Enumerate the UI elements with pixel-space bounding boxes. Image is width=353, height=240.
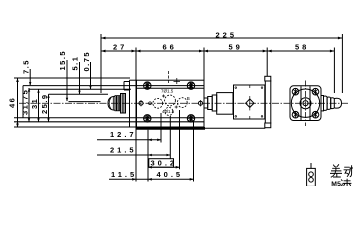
extension line x136 (135, 48, 137, 182)
end view vertical centerline (305, 81, 307, 127)
dimension 46 vertical (14, 78, 21, 128)
end view bolt bottom-right (312, 111, 319, 118)
end cap bottom tab (265, 123, 271, 128)
body bottom thick band (136, 127, 205, 130)
base line under right section (205, 127, 265, 129)
bracket step (124, 80, 130, 127)
dimension 21.5 (97, 154, 170, 157)
bottom ext line x148 (147, 130, 149, 182)
svg-text:40.5: 40.5 (157, 170, 184, 179)
manual knob ribs (115, 96, 121, 111)
label chinese dong (344, 165, 353, 177)
dimension 15.5 vertical (66, 60, 68, 101)
extension line x267.2 (266, 48, 268, 77)
step rect (212, 95, 217, 111)
dimension 7.5 vertical (29, 69, 31, 86)
svg-text:66: 66 (163, 43, 177, 52)
dashed port A (153, 98, 163, 108)
svg-text:15.5: 15.5 (58, 50, 67, 71)
svg-text:4Ø1.5: 4Ø1.5 (162, 109, 175, 114)
svg-text:21.5: 21.5 (110, 145, 137, 154)
top line A (14, 77, 130, 79)
svg-text:27: 27 (113, 43, 127, 52)
port tick 2 (175, 106, 178, 109)
small port dot (149, 102, 152, 105)
label chinese cha (330, 164, 342, 177)
port line C body (137, 87, 205, 89)
port tick 1 (162, 95, 165, 98)
end view small circle (303, 101, 308, 106)
bottom ext line x170.3 (169, 116, 171, 159)
svg-text:7.5: 7.5 (22, 59, 31, 74)
end view chord right (309, 86, 311, 120)
port line C left (29, 88, 131, 90)
end view chord left (300, 86, 302, 120)
dimension 30.2 (148, 159, 180, 169)
bottom ext line x161 (160, 113, 162, 143)
svg-text:59: 59 (229, 43, 243, 52)
dimension chain line 27-66-59-58 (101, 50, 334, 53)
dimension 12.7 (97, 139, 161, 142)
port circle left on centerline (139, 100, 143, 106)
svg-text:11.5: 11.5 (111, 170, 137, 179)
dimension 5.1 vertical (78, 62, 80, 94)
end cap top tab (265, 76, 271, 81)
extension line x342.4 (341, 34, 343, 93)
centerline main horizontal (19, 102, 349, 104)
stub rect (204, 98, 208, 108)
svg-text:5.1: 5.1 (70, 56, 79, 71)
bottom ext line x193.5 (193, 122, 195, 182)
tube top line B (23, 85, 204, 87)
dimension 40.5 and 11.5 line (109, 178, 194, 181)
dimension 25.9 vertical (47, 94, 49, 122)
dimension 31 vertical (37, 89, 39, 122)
dimension 225 line (101, 37, 342, 40)
knob flange (121, 94, 126, 114)
tube bottom line y117.8 (14, 117, 204, 119)
end view bolt top-right (312, 88, 319, 95)
port line D (49, 93, 109, 95)
end cap (265, 81, 271, 123)
manual knob dome (108, 96, 115, 110)
label chinese lian (341, 179, 352, 186)
valve body (130, 80, 205, 127)
svg-text:0.75: 0.75 (82, 51, 91, 72)
extension line x204 (203, 48, 205, 81)
end view mid circle (300, 98, 311, 109)
dashed port P (165, 95, 176, 106)
svg-text:25.9: 25.9 (40, 93, 49, 114)
extension line x334.4 (333, 48, 335, 94)
svg-text:7Ø1.5: 7Ø1.5 (161, 88, 174, 93)
left end vertical (22, 86, 24, 118)
port circle right on centerline (199, 100, 203, 106)
bolt hole top-right (187, 82, 194, 89)
end view square flange (290, 86, 321, 121)
svg-text:58: 58 (295, 43, 309, 52)
bolt hole top-left (144, 82, 151, 89)
dimension 31.75 vertical (28, 88, 30, 122)
svg-text:31.75: 31.75 (21, 89, 30, 115)
svg-text:M5: M5 (331, 181, 341, 186)
cylinder rect (217, 93, 233, 115)
svg-text:225: 225 (216, 30, 238, 39)
block diamond (246, 85, 254, 119)
body center dashed vertical (168, 71, 170, 83)
end view bolt top-left (292, 88, 299, 95)
base line y127 left (14, 126, 137, 128)
extension line x101 (100, 34, 102, 93)
block corner dots (235, 87, 263, 117)
svg-text:B: B (187, 96, 190, 101)
svg-text:46: 46 (8, 97, 17, 108)
bolt hole bottom-left (144, 115, 151, 122)
hand knob on end view (321, 96, 342, 111)
base line y121.8 (14, 121, 204, 123)
svg-text:30.2: 30.2 (151, 159, 178, 168)
body top tick (174, 78, 181, 84)
end view bolt bottom-left (292, 111, 299, 118)
knob leader line (69, 101, 101, 103)
bolt hole bottom-right (187, 115, 194, 122)
bottom ext line x179.5 (179, 110, 181, 169)
svg-text:12.7: 12.7 (110, 130, 137, 139)
collar rect (208, 97, 213, 110)
end view big circle (291, 89, 319, 117)
hydraulic symbol box (307, 163, 316, 186)
end block (234, 85, 265, 119)
dimension 0.75 vertical (89, 62, 91, 89)
dashed port B (177, 98, 187, 108)
dashed port T (165, 107, 173, 115)
